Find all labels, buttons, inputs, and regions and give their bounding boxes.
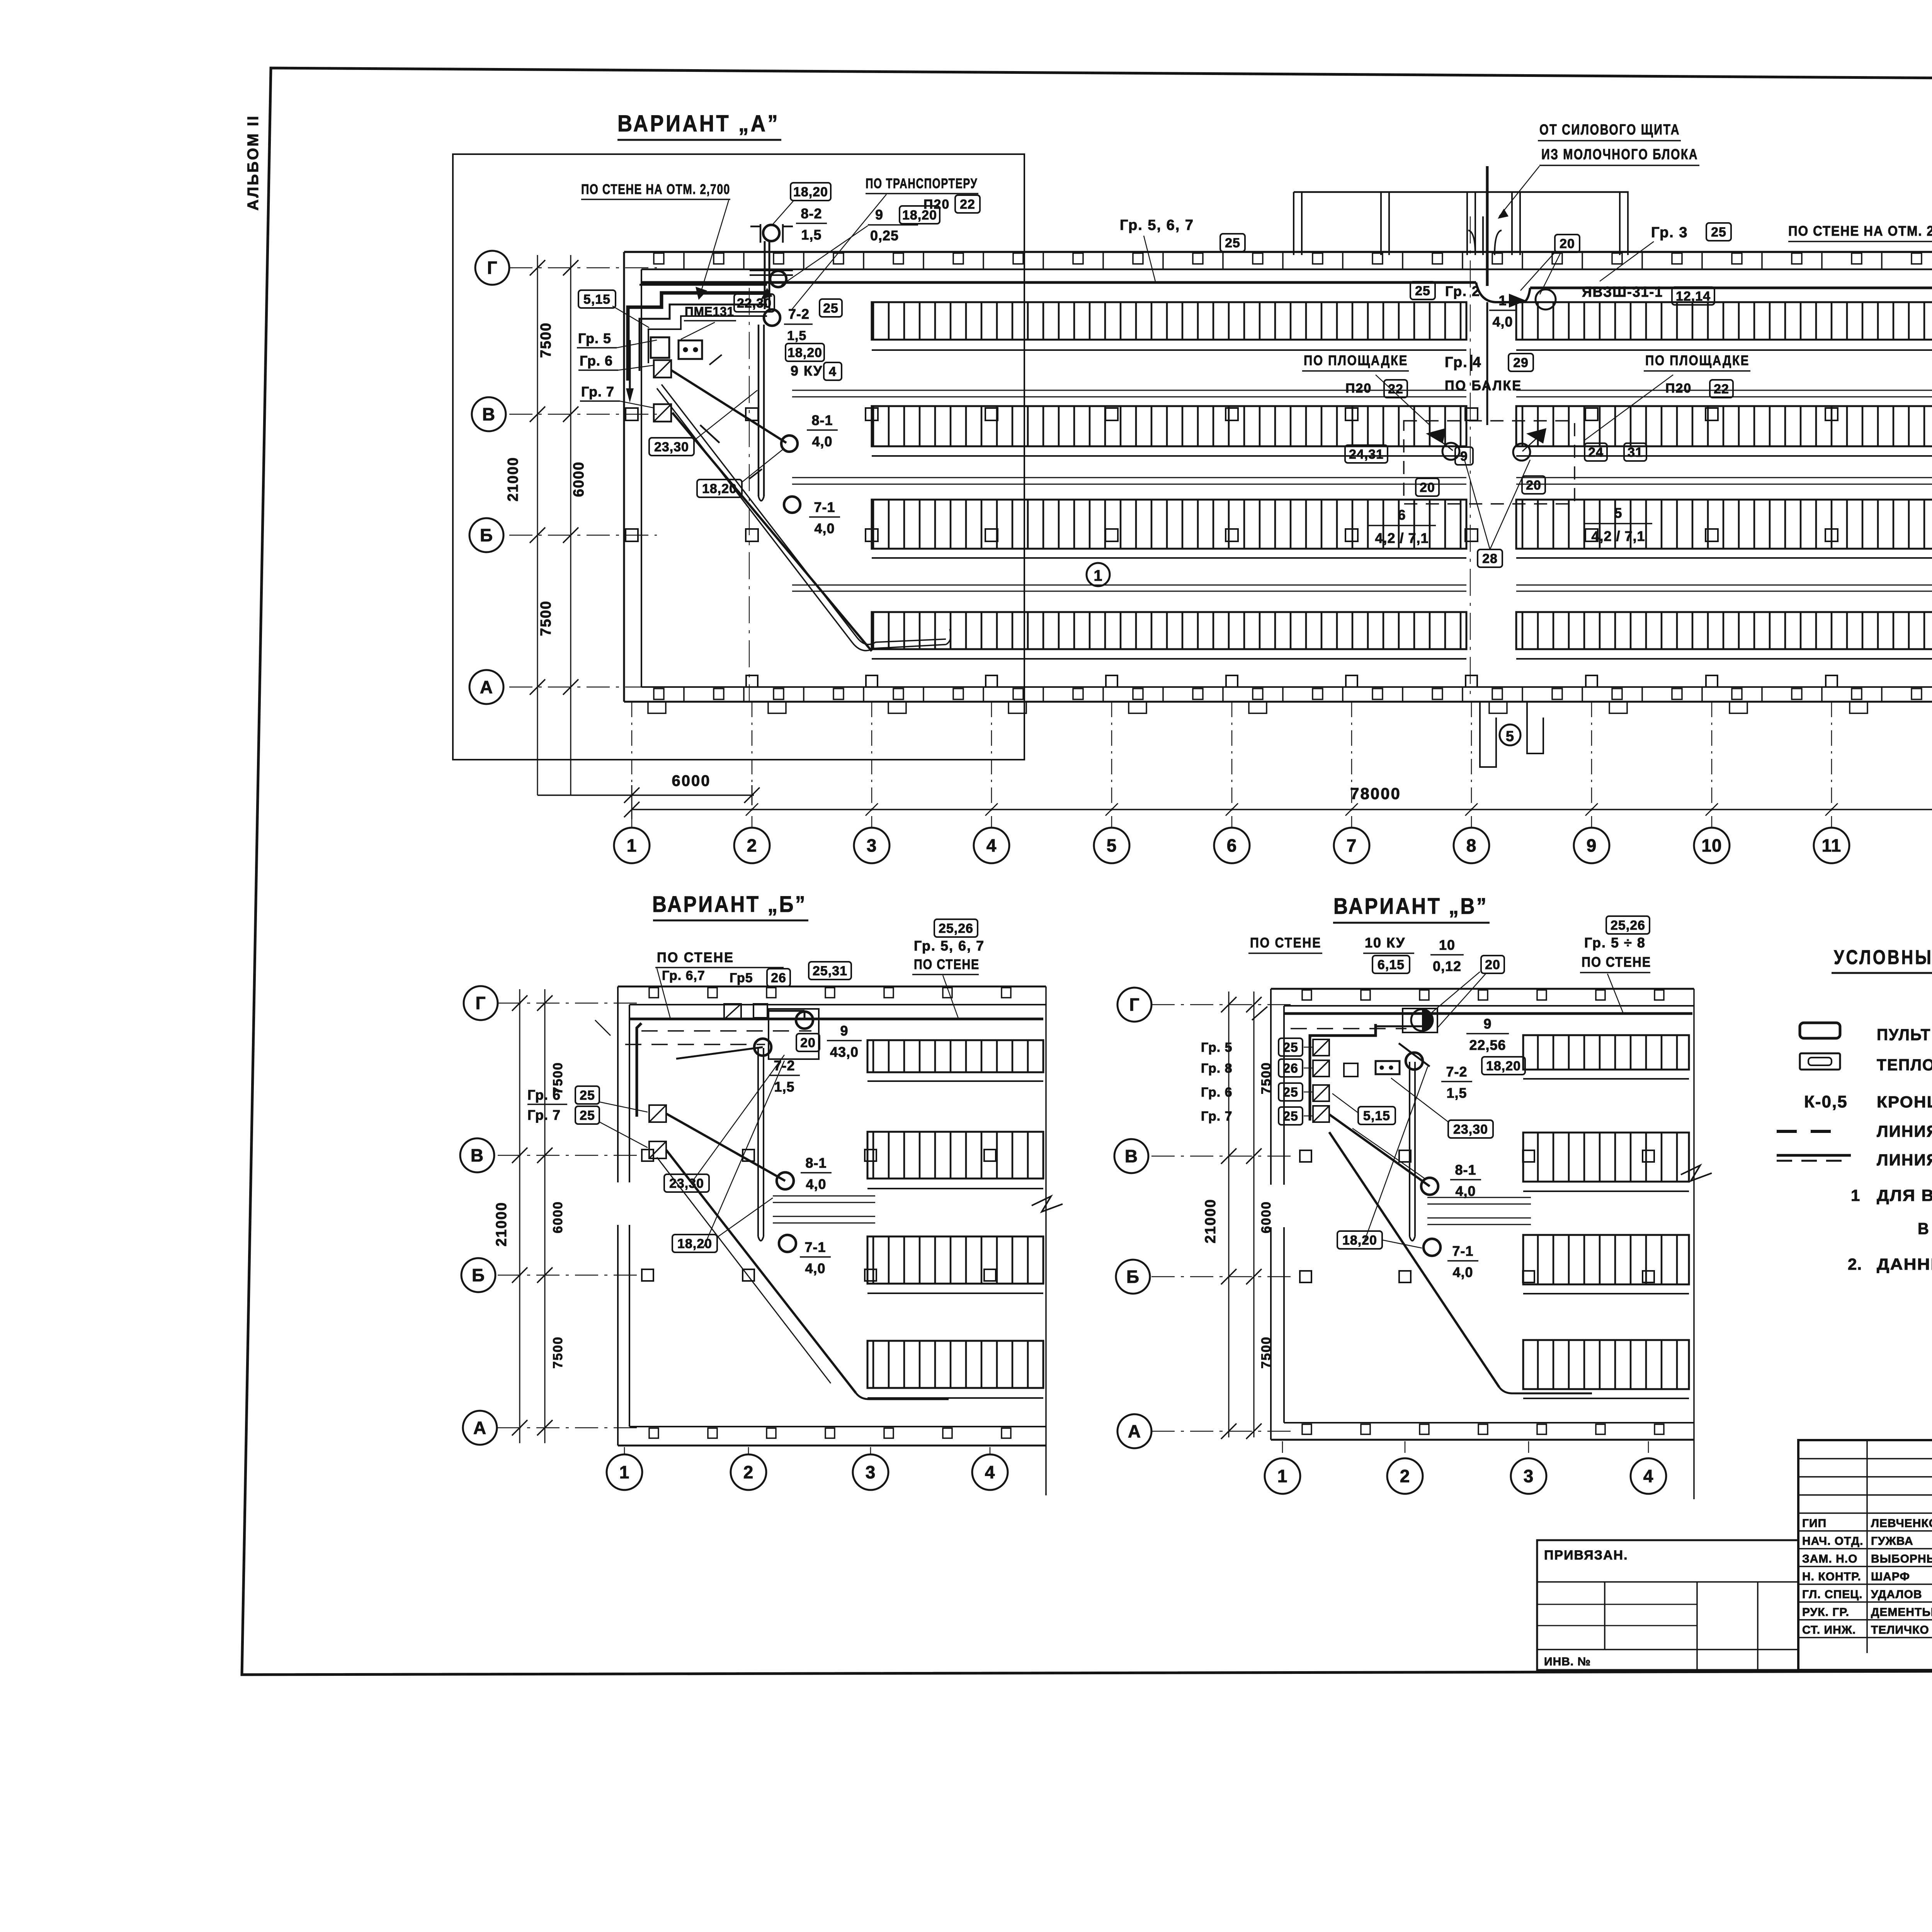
svg-text:8-2: 8-2 [801,206,822,221]
svg-text:22,56: 22,56 [1469,1037,1506,1053]
svg-text:6000: 6000 [1259,1201,1274,1233]
lamp 7-2 [764,310,780,326]
svg-text:6: 6 [1227,835,1237,855]
panel ПМЕ131 box [651,337,669,358]
svg-text:Б: Б [480,525,493,545]
leaders center cluster [1464,460,1490,549]
svg-text:ПО БАЛКЕ: ПО БАЛКЕ [1445,378,1522,393]
axis circle 7 [1334,828,1369,863]
label 24,31 right [1585,443,1607,461]
svg-text:4,2 / 7,1: 4,2 / 7,1 [1591,528,1645,544]
svg-text:Гр5: Гр5 [730,971,753,985]
svg-text:12,14: 12,14 [1676,289,1711,304]
svg-text:25: 25 [580,1108,595,1123]
svg-text:ДЛЯ ВАРИАНТОВ „Б” И „В” ЭЛЕКТ: ДЛЯ ВАРИАНТОВ „Б” И „В” ЭЛЕКТРОСИЛОВАЯ Р… [1877,1186,1932,1204]
transporter gallery structure [1294,191,1629,193]
svg-text:7500: 7500 [538,322,554,358]
Б axis circle 2 [731,1454,766,1490]
svg-text:Г: Г [487,258,497,278]
svg-text:Гр. 4: Гр. 4 [1445,354,1482,371]
lamp 8-1 [781,435,798,452]
wall ticks bottom [654,689,664,699]
svg-text:Гр. 6: Гр. 6 [1201,1085,1233,1100]
svg-text:ЛИНИЯ СЕТИ ДЕЖУРНОГО ОСВЕЩЕ: ЛИНИЯ СЕТИ ДЕЖУРНОГО ОСВЕЩЕНИЯ [1877,1122,1932,1140]
В stall band 2 [1523,1133,1689,1182]
svg-text:8-1: 8-1 [811,412,833,428]
dim line 6000 (axes 1-2) [537,794,754,796]
svg-text:П20: П20 [1665,381,1692,396]
svg-text:9: 9 [875,207,883,223]
label 22,30 box [734,294,774,312]
selection box around axes 1-3 [453,154,1024,760]
stall band 4 [1516,612,1932,649]
svg-text:1,5: 1,5 [1446,1085,1467,1101]
svg-text:6: 6 [1398,507,1406,523]
svg-text:ОТ СИЛОВОГО ЩИТА: ОТ СИЛОВОГО ЩИТА [1539,122,1680,138]
svg-text:7500: 7500 [1259,1336,1274,1369]
В axis circle 1 [1265,1458,1300,1494]
svg-text:7500: 7500 [551,1336,565,1369]
plan Б label 18,20 [672,1235,717,1252]
svg-text:7500: 7500 [551,1062,565,1094]
svg-text:28: 28 [1482,551,1498,566]
legend dashed line symbol [1777,1130,1844,1133]
legend symbol heat receiver [1800,1053,1840,1070]
svg-text:РУК. ГР.: РУК. ГР. [1802,1606,1849,1619]
vertical dim lines left [537,255,538,795]
svg-text:4: 4 [986,835,997,855]
svg-text:Г: Г [1129,995,1139,1015]
svg-text:4,2 / 7,1: 4,2 / 7,1 [1375,530,1429,546]
plan Б panel cluster [637,1023,641,1117]
axis circle 6 [1214,828,1250,863]
lamp 7-1 [784,497,800,513]
plan В dims [1228,992,1230,1437]
plan В heavy cable top wall [1284,1012,1692,1015]
axis circle 4 [974,828,1009,863]
plan В label 18,20 box [1482,1057,1525,1075]
svg-text:9 КУ: 9 КУ [791,363,823,379]
svg-text:ВАРИАНТ „Б”: ВАРИАНТ „Б” [652,892,807,917]
svg-text:6,15: 6,15 [1378,957,1405,972]
svg-text:В: В [471,1145,484,1165]
label 18,20 [786,344,824,361]
svg-text:4,0: 4,0 [1455,1183,1476,1199]
svg-text:Гр. 8: Гр. 8 [1201,1061,1233,1076]
svg-text:1: 1 [1277,1466,1288,1486]
svg-text:9: 9 [1587,835,1597,855]
svg-text:7-2: 7-2 [788,306,810,322]
svg-text:20: 20 [1560,236,1575,251]
axis circle 8 [1454,828,1489,863]
plan В label 18,20 [1337,1231,1382,1249]
riser to 8-2 [764,241,766,309]
plan Б dashed duty light line [641,1030,811,1032]
plan Б row circles [464,986,498,1020]
svg-text:2.: 2. [1848,1255,1862,1273]
plan Б break mark right [1032,1196,1063,1212]
svg-text:ВАРИАНТ „А”: ВАРИАНТ „А” [617,111,780,136]
svg-text:А: А [473,1418,486,1438]
svg-text:10: 10 [1701,835,1722,855]
svg-text:6000: 6000 [672,772,711,789]
row circle В [472,397,506,431]
Б stall band 4 [867,1341,1043,1388]
svg-text:20: 20 [1526,478,1541,493]
svg-text:10 КУ: 10 КУ [1365,935,1405,951]
svg-text:Гр. 6,7: Гр. 6,7 [662,968,705,983]
dim line 78000 [632,809,1932,810]
svg-text:П20: П20 [1345,381,1372,396]
sheet frame border [242,68,1932,1675]
svg-text:ЯВЗШ-31-1: ЯВЗШ-31-1 [1582,284,1663,300]
Б axis circle 3 [853,1454,888,1490]
svg-text:ИЗ МОЛОЧНОГО БЛОКА: ИЗ МОЛОЧНОГО БЛОКА [1541,146,1698,163]
svg-text:20: 20 [1420,480,1435,495]
svg-text:4,0: 4,0 [812,434,832,449]
title block outer [1798,1440,1932,1670]
svg-text:6000: 6000 [551,1201,565,1233]
plan В lamp 7-1 [1423,1239,1440,1256]
Б axis circle 1 [607,1454,642,1490]
svg-text:18,20: 18,20 [702,481,737,496]
svg-text:В ОСЯХ 7-14, А-Б-В-Г — АНАЛОГИ: В ОСЯХ 7-14, А-Б-В-Г — АНАЛОГИЧНА. [1918,1219,1932,1238]
switch Гр.7 [654,404,671,422]
row circle А [469,670,503,704]
plan В dashed line [1291,1028,1406,1029]
label 18,20 box top [791,183,831,201]
zone circle 5 [1500,724,1520,745]
svg-text:25: 25 [1225,236,1240,250]
Б axis circle 4 [972,1454,1008,1490]
svg-text:4,0: 4,0 [806,1176,826,1192]
svg-text:18,20: 18,20 [793,185,828,199]
svg-text:25,31: 25,31 [813,964,847,978]
thick diagonal cable to band4 [672,413,872,651]
svg-text:3: 3 [866,1462,876,1482]
plan В building walls [1271,988,1694,990]
fan symbols [1426,428,1446,444]
axis circle 3 [854,828,889,863]
svg-text:4,0: 4,0 [1452,1264,1473,1280]
plan Б diagonal cables [666,1114,785,1181]
svg-text:ПУЛЬТ УПРАВЛЕНИЯ КОМПЛЕКТНОЙ: ПУЛЬТ УПРАВЛЕНИЯ КОМПЛЕКТНОЙ ПОСТАВКИ [1877,1025,1932,1044]
dashed equipment box [1404,421,1575,504]
svg-text:25,26: 25,26 [1611,918,1645,933]
svg-text:Б: Б [1126,1267,1139,1287]
plan Б dim 21000 [519,989,520,1443]
label 18,20 [697,480,742,497]
svg-text:10: 10 [1439,937,1455,953]
svg-text:1,5: 1,5 [801,227,821,243]
svg-text:ШАРФ: ШАРФ [1871,1570,1910,1583]
svg-text:23,30: 23,30 [654,440,689,454]
svg-text:4,0: 4,0 [805,1260,825,1276]
plan Б label 20 [796,1034,820,1051]
plan В row circles [1117,988,1151,1022]
svg-text:ЗАМ. Н.О: ЗАМ. Н.О [1802,1553,1857,1565]
feeder arrow down [629,340,631,398]
column squares rows В Б [626,408,638,420]
building А bottom wall [624,701,1932,703]
axis circle 5 [1094,828,1129,863]
label 24,31 left [1345,445,1388,463]
svg-text:Н. КОНТР.: Н. КОНТР. [1802,1570,1861,1583]
svg-text:20: 20 [800,1036,816,1050]
stall band 2 [872,406,1466,446]
plan Б building walls [618,986,1046,988]
svg-text:4: 4 [985,1462,995,1482]
svg-text:Гр. 5, 6, 7: Гр. 5, 6, 7 [1120,217,1194,233]
label 20 with two leaders [1555,235,1580,252]
svg-text:21000: 21000 [493,1202,510,1247]
svg-text:А: А [480,677,493,697]
plan Б lamp 7-2 [754,1039,771,1056]
svg-text:ПО СТЕНЕ: ПО СТЕНЕ [657,949,734,965]
svg-text:4: 4 [1643,1466,1654,1486]
svg-text:4,0: 4,0 [814,520,835,536]
plan В lamp 7-2 [1406,1053,1423,1070]
stall band 3 [872,500,1466,549]
axis dash-dot verticals [631,702,633,828]
row circle Г [475,251,509,285]
svg-text:5,15: 5,15 [1363,1109,1390,1123]
row circle Б [469,518,503,552]
wall ticks top [654,253,664,264]
plan В conduit vertical [1409,1062,1410,1236]
twin cable on cable-tray diagonal [657,388,946,651]
feed alley double lines [792,390,1466,391]
plan В leader crosses [1352,1128,1426,1179]
svg-text:1: 1 [627,835,637,855]
svg-text:23,30: 23,30 [1453,1122,1488,1137]
plan Б alley double lines [773,1196,875,1197]
svg-text:5,15: 5,15 [583,292,611,307]
stall band 3 [1516,500,1932,549]
heavy cable along top wall Гр.2/Гр.3 [641,281,1476,284]
svg-text:Б: Б [472,1265,485,1285]
svg-text:ГИП: ГИП [1802,1517,1827,1530]
svg-text:4: 4 [829,364,837,379]
svg-text:ПО СТЕНЕ НА ОТМ. 2,700: ПО СТЕНЕ НА ОТМ. 2,700 [581,181,730,197]
svg-text:7500: 7500 [538,600,554,636]
svg-text:А: А [1128,1421,1141,1441]
label 20 boxes [1416,478,1439,496]
svg-text:ПО СТЕНЕ: ПО СТЕНЕ [1582,954,1651,970]
svg-text:25: 25 [1283,1085,1298,1100]
svg-text:0,25: 0,25 [870,228,899,243]
Б stall band 3 [867,1236,1043,1284]
svg-text:1,5: 1,5 [774,1079,794,1095]
svg-text:18,20: 18,20 [1342,1233,1377,1248]
svg-text:АЛЬБОМ II: АЛЬБОМ II [245,114,262,211]
plan В label 5,15 [1358,1107,1395,1124]
svg-text:18,20: 18,20 [677,1236,712,1251]
plan Б switch Гр.7 [649,1141,666,1158]
plan Б lamp 7-1 [779,1235,796,1252]
svg-text:9: 9 [1483,1016,1492,1032]
lamp 9 below wall [770,271,786,287]
svg-text:Гр. 5 ÷ 8: Гр. 5 ÷ 8 [1584,935,1646,951]
svg-text:7500: 7500 [1259,1062,1274,1094]
plan В column squares [1399,1150,1411,1162]
svg-text:ЛИНИЯ ЭЛЕКТРОСЕТИ, ПОДВЕШЕНН: ЛИНИЯ ЭЛЕКТРОСЕТИ, ПОДВЕШЕННАЯ К ТРОСУ. [1877,1151,1932,1169]
axis circle 2 [734,828,770,863]
svg-text:ГЛ. СПЕЦ.: ГЛ. СПЕЦ. [1802,1588,1862,1601]
В stall band 3 [1523,1235,1689,1284]
door protrusions below bottom wall [1480,702,1496,767]
feeder drop from above [1486,166,1489,286]
svg-text:8-1: 8-1 [1455,1162,1476,1178]
svg-text:6000: 6000 [571,461,587,497]
column squares on bottom wall [746,675,758,687]
feeder drop inside building [1486,302,1488,425]
svg-text:2: 2 [747,835,757,855]
heat receiver symbol [679,340,702,359]
svg-text:УДАЛОВ: УДАЛОВ [1871,1588,1922,1601]
plan Б wall ticks [649,988,658,998]
В axis circle 2 [1387,1458,1423,1494]
legend cable-on-rope symbol [1777,1154,1851,1157]
svg-text:ГУЖВА: ГУЖВА [1871,1535,1913,1548]
svg-text:Гр. 5: Гр. 5 [1201,1040,1233,1055]
svg-text:ПО СТЕНЕ: ПО СТЕНЕ [914,956,980,972]
svg-text:5: 5 [1614,505,1622,521]
svg-text:31: 31 [1628,445,1643,460]
svg-text:Гр. 7: Гр. 7 [581,384,614,400]
svg-text:ТЕЛИЧКО: ТЕЛИЧКО [1871,1624,1929,1636]
svg-text:26: 26 [1283,1061,1298,1076]
svg-text:7-2: 7-2 [774,1058,795,1073]
В stall band 4 [1523,1340,1689,1389]
svg-text:ПО СТЕНЕ НА ОТМ. 2 700: ПО СТЕНЕ НА ОТМ. 2 700 [1788,223,1932,239]
Б stall band 2 [867,1132,1043,1179]
svg-text:Гр. 3: Гр. 3 [1651,224,1688,241]
svg-text:23,30: 23,30 [669,1176,704,1191]
axis circle 11 [1814,828,1849,863]
plan В diagonal cables [1329,1114,1430,1186]
plan Б leader crosses [692,1055,784,1182]
svg-text:25,26: 25,26 [939,921,973,936]
svg-text:ДАННЫЙ ЛИСТ РАССМАТРИВАТЬ С: ДАННЫЙ ЛИСТ РАССМАТРИВАТЬ СОВМЕСТНО С ЛИ… [1877,1255,1932,1273]
door stubs below bottom wall [648,702,666,713]
vertical conduit 7-2 to 7-1 [758,325,760,497]
svg-text:ВЫБОРНЫЙ: ВЫБОРНЫЙ [1871,1552,1932,1565]
signature rows [1798,1512,1932,1514]
plan В lamp 8-1 [1421,1178,1438,1195]
legend symbol control desk [1800,1023,1840,1038]
svg-text:0,12: 0,12 [1433,958,1461,974]
axis 8 line through building [1470,216,1471,702]
svg-text:22,30: 22,30 [737,296,772,311]
svg-text:1: 1 [1498,293,1507,308]
svg-text:11: 11 [1822,835,1842,855]
svg-text:8: 8 [1466,835,1477,855]
plan В wall ticks [1302,990,1311,1000]
svg-text:ПМЕ131: ПМЕ131 [685,304,734,319]
lamp 8-2 above wall [763,225,779,241]
svg-text:4,0: 4,0 [1492,314,1513,330]
plan В label 23,30 [1448,1120,1493,1138]
plan В break mark right [1681,1165,1712,1181]
label 5,15 box [578,290,616,308]
plan Б twin tray diagonal [657,1157,831,1383]
svg-text:25: 25 [1283,1109,1298,1124]
svg-text:1: 1 [1094,567,1102,584]
plan Б heavy cable top wall [629,1018,1043,1020]
svg-text:24,31: 24,31 [1349,447,1384,462]
svg-text:8-1: 8-1 [805,1155,827,1171]
label 23,30 [649,438,694,456]
svg-text:ПО ТРАНСПОРТЕРУ: ПО ТРАНСПОРТЕРУ [866,175,978,191]
axis circle 9 [1574,828,1609,863]
stall band 4 [872,612,1466,649]
svg-text:2: 2 [1400,1466,1410,1486]
svg-text:КРОНШТЕЙН С ВЫЛЕТОМ 0,5 М.: КРОНШТЕЙН С ВЫЛЕТОМ 0,5 М. [1877,1092,1932,1111]
wall crossing marks [750,270,793,271]
switch Гр.6 [654,360,671,378]
svg-text:22: 22 [1714,382,1729,396]
zone circle 1 [1087,563,1110,586]
svg-text:Гр. 5: Гр. 5 [578,330,611,346]
svg-text:7-1: 7-1 [804,1239,826,1255]
svg-text:21000: 21000 [1202,1199,1219,1243]
svg-text:25: 25 [823,301,838,316]
svg-text:3: 3 [1524,1466,1534,1486]
plan Б conduit vertical [757,1048,759,1236]
svg-text:Гр. 6: Гр. 6 [580,353,613,369]
feeder entry curves [1468,230,1475,255]
svg-text:26: 26 [771,971,786,985]
svg-text:9: 9 [1460,449,1468,464]
svg-text:Г: Г [475,993,486,1013]
svg-text:ПРИВЯЗАН.: ПРИВЯЗАН. [1544,1548,1628,1563]
Б stall band 1 [867,1040,1043,1072]
svg-text:43,0: 43,0 [830,1044,859,1060]
svg-text:Гр. 7: Гр. 7 [527,1107,561,1123]
plan Б switch Гр.6 [649,1105,666,1122]
wall segmentation ticks [683,252,685,269]
svg-text:7: 7 [1347,835,1357,855]
svg-text:К-0,5: К-0,5 [1804,1092,1848,1111]
svg-text:7-1: 7-1 [814,499,835,515]
svg-text:СТ. ИНЖ.: СТ. ИНЖ. [1802,1624,1856,1636]
building А top wall [624,251,1932,253]
svg-text:9: 9 [840,1023,848,1039]
svg-text:25: 25 [1283,1040,1298,1055]
svg-text:25: 25 [580,1088,595,1103]
control panel cable loop [628,293,767,381]
label 9 box [1455,447,1473,465]
svg-text:НАЧ. ОТД.: НАЧ. ОТД. [1802,1535,1863,1548]
svg-text:1: 1 [619,1462,630,1482]
svg-text:ВАРИАНТ „В”: ВАРИАНТ „В” [1333,894,1488,919]
svg-text:25: 25 [1711,225,1726,240]
svg-text:7-1: 7-1 [1452,1243,1473,1259]
axis circle 1 [614,828,650,863]
svg-text:25: 25 [1415,284,1430,298]
plan В switches Гр5-8 [1313,1039,1329,1056]
plan В panel cluster [1310,1024,1376,1121]
plan Б lamp 8-1 [777,1172,794,1189]
svg-text:В: В [482,404,495,424]
svg-text:2: 2 [743,1462,754,1482]
svg-text:3: 3 [867,835,877,855]
svg-text:1: 1 [1851,1186,1860,1204]
plan В alley double lines [1427,1197,1531,1198]
svg-text:29: 29 [1513,355,1529,370]
svg-text:7-2: 7-2 [1446,1064,1467,1080]
